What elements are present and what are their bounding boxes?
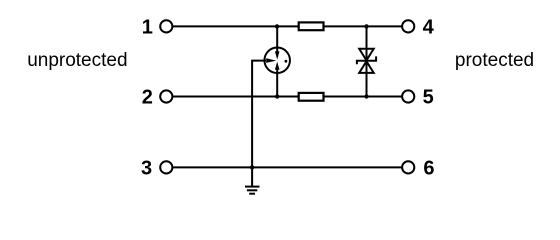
svg-text:1: 1 [142,17,153,39]
svg-text:5: 5 [423,87,434,109]
svg-text:protected: protected [455,50,534,71]
svg-text:2: 2 [142,87,153,109]
svg-text:4: 4 [423,17,435,39]
svg-text:unprotected: unprotected [27,50,127,71]
svg-text:3: 3 [141,158,152,180]
svg-text:6: 6 [423,158,434,180]
